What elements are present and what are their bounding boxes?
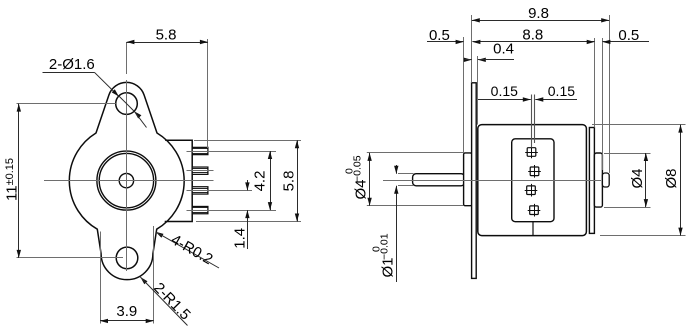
rear shaft tip [602,173,609,187]
dim 8.8 [594,38,596,128]
side view axis centerline [383,180,601,182]
svg-text:1.4: 1.4 [232,228,249,249]
motor body front outline with mounting lobes [69,82,184,279]
svg-text:2-Ø1.6: 2-Ø1.6 [49,56,95,73]
dim dia8 body [592,124,686,126]
dim 11 +/-0.15 left [18,104,20,258]
pin extension lines [187,151,277,153]
svg-text:0.4: 0.4 [493,41,514,58]
hole centerline bottom / ext for 11 dim [17,257,124,259]
dim 0.5 left [463,37,465,153]
solder pads [527,148,536,157]
mounting flange plate (side) [472,83,477,279]
svg-text:−0.01: −0.01 [379,233,391,260]
side view shaft [413,174,465,186]
svg-text:3.9: 3.9 [116,303,137,320]
svg-text:−0.05: −0.05 [352,155,364,182]
board seam line [532,222,534,236]
label 4-R0.2 fillets [156,232,164,238]
dim 0.5 right [602,38,604,170]
terminal board (side) [512,139,554,222]
svg-text:9.8: 9.8 [528,5,549,22]
vertical centerline [126,42,128,74]
svg-text:0.15: 0.15 [491,83,518,99]
boss ring outer [97,151,156,210]
dim 5.8 right (block height) [194,140,301,142]
dim 0.4 [477,56,479,125]
motor body (side) [478,125,587,236]
label 2-R1.5 lobe radius [140,277,147,284]
svg-text:Ø8: Ø8 [663,168,680,188]
svg-text:4.2: 4.2 [251,171,268,192]
hole centerline top / ext for 11 dim [17,103,116,105]
rear boss [594,153,602,207]
svg-text:5.8: 5.8 [156,27,177,44]
lead wires [531,95,533,148]
connector block (front view) [165,140,193,221]
dim 3.9 bottom [100,232,102,324]
dim dia1 -0.01 shaft [398,173,414,175]
terminal pins [192,147,208,154]
front boss (side) [464,153,472,206]
boss ring inner [99,153,153,207]
rear cap ring [589,128,594,234]
dim 9.8 overall [471,15,473,83]
dim 4.2 (pin span) [270,151,272,210]
shaft circle [119,173,133,187]
dim 5.8 top [207,39,209,148]
dim dia4 rear boss [604,153,651,155]
svg-text:0.5: 0.5 [429,27,450,44]
svg-text:Ø4: Ø4 [629,168,646,188]
horizontal centerline [44,180,214,182]
dim 1.4 (pin pitch) [247,180,249,190]
svg-text:0.5: 0.5 [618,27,639,44]
svg-text:0.15: 0.15 [548,83,575,99]
dim dia4 -0.05 front boss [367,152,464,154]
svg-text:5.8: 5.8 [281,171,298,192]
svg-text:8.8: 8.8 [522,27,543,44]
dim 0.15 0.15 wires [478,99,531,101]
mounting hole top [116,93,138,115]
mounting hole bottom [116,247,138,269]
